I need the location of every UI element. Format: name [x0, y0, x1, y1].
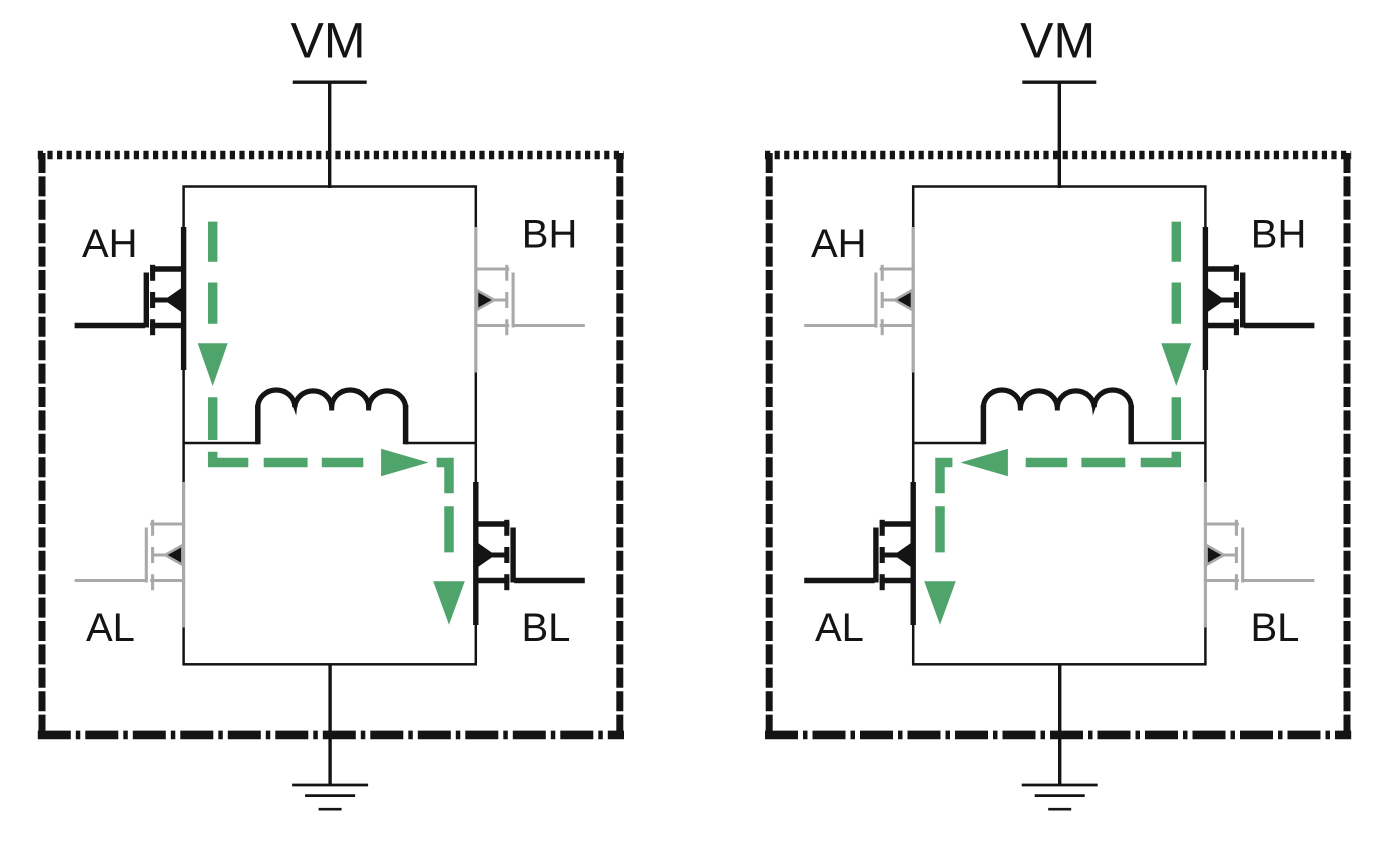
svg-text:AH: AH: [82, 222, 138, 266]
wire output node A (right diagram): [912, 442, 983, 445]
wire bridge bottom to ground (right diagram): [1058, 664, 1061, 785]
transistor BL (left diagram): [473, 482, 585, 625]
transistor AH (left diagram): [75, 227, 187, 370]
wire VM to H-bridge top rail (left diagram): [328, 82, 331, 188]
current path: corner and horizontal segment across output (right diagram): [960, 449, 1176, 476]
current path: corner and horizontal segment across output (left diagram): [213, 449, 429, 476]
wire output node B (left diagram): [406, 442, 477, 445]
svg-text:AH: AH: [811, 222, 867, 266]
H-bridge outline box (left diagram): [184, 187, 476, 665]
svg-text:BL: BL: [1251, 606, 1300, 650]
VM supply rail symbol (left diagram): [293, 80, 367, 83]
inductor motor winding (left diagram): [258, 390, 406, 444]
wire bridge bottom to ground (left diagram): [328, 664, 331, 785]
transistor AL (left diagram): [75, 482, 186, 628]
svg-text:BL: BL: [522, 606, 571, 650]
svg-text:AL: AL: [815, 606, 864, 650]
ground symbol (right diagram): [1022, 785, 1098, 809]
transistor BH (right diagram): [1203, 227, 1315, 370]
H-bridge outline box (right diagram): [913, 187, 1205, 665]
wire output node B (right diagram): [1131, 442, 1206, 445]
svg-text:VM: VM: [1020, 13, 1095, 69]
current path: dashed segment through high-side FET (left diagram): [198, 222, 228, 440]
ground symbol (left diagram): [292, 785, 368, 809]
current path: dashed segment through high-side FET (right diagram): [1161, 222, 1191, 440]
svg-text:BH: BH: [522, 212, 578, 256]
VM supply rail symbol (right diagram): [1022, 80, 1096, 83]
transistor BL (right diagram): [1204, 482, 1315, 628]
transistor AL (right diagram): [804, 482, 916, 625]
wire output node A (left diagram): [183, 442, 258, 445]
current path: corner and dashed segment through low-side FET (left diagram): [433, 463, 465, 625]
svg-text:AL: AL: [86, 606, 135, 650]
svg-text:BH: BH: [1251, 212, 1307, 256]
svg-text:VM: VM: [291, 13, 366, 69]
wire VM to H-bridge top rail (right diagram): [1058, 82, 1061, 188]
inductor motor winding (right diagram): [983, 390, 1131, 444]
transistor AH (right diagram): [804, 227, 915, 373]
device boundary dashed box (left diagram): [38, 153, 624, 737]
current path: corner and dashed segment through low-side FET (right diagram): [924, 463, 956, 625]
device boundary dashed box (right diagram): [765, 153, 1351, 737]
transistor BH (left diagram): [474, 227, 585, 373]
